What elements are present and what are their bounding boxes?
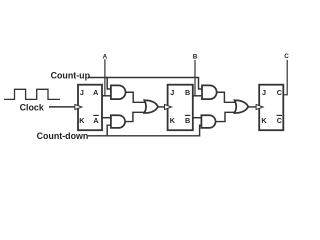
svg-text:Clock: Clock [20,102,44,112]
clock wedge FF1 [75,105,82,110]
wire OR2 to FF3 clock [248,106,256,108]
svg-text:B: B [185,88,190,97]
wire A-bar output [102,117,111,119]
wire AND2 to OR1 [125,112,146,121]
node B [194,61,196,96]
wire count-down rail [89,125,202,136]
or-gate OR1 [144,100,158,113]
svg-text:Count-down: Count-down [37,131,89,141]
clock wedge FF3 [256,105,263,110]
flip-flop FF2 [168,85,193,131]
wire B-bar output [193,117,202,119]
svg-text:C: C [277,88,282,97]
overline C-bar FF3 [277,114,281,116]
flip-flop FF1 [78,85,102,131]
wire OR1 to FF2 clock [158,106,165,108]
svg-text:J: J [80,88,84,97]
svg-text:B: B [193,53,198,60]
svg-text:J: J [170,88,174,97]
svg-text:K: K [261,116,267,125]
svg-text:C: C [277,116,282,125]
svg-text:K: K [79,116,85,125]
node A [104,60,106,96]
wire AND3 to OR2 [217,92,237,102]
svg-text:A: A [93,116,98,125]
clock wedge FF2 [165,105,172,110]
wire count-up to AND1 [107,78,111,90]
svg-text:Count-up: Count-up [51,70,91,80]
wire AND1 to OR1 [126,92,147,102]
or-gate OR2 [235,100,249,113]
svg-text:K: K [170,116,176,125]
flip-flop FF3 [259,85,283,131]
and-gate AND4 [201,115,215,128]
wire clock input [50,106,75,108]
wire AND4 to OR2 [216,112,237,121]
node C wire [283,61,287,95]
and-gate AND1 [111,85,126,99]
wire count-down to AND2 [107,125,111,136]
wire count-up rail [90,78,202,90]
overline B-bar FF2 [185,114,189,116]
svg-text:A: A [103,53,108,60]
wire A output [102,95,111,97]
and-gate AND3 [202,85,217,99]
svg-text:B: B [185,116,190,125]
svg-text:C: C [284,53,289,60]
wire B output [193,95,202,97]
and-gate AND2 [111,115,125,128]
svg-text:J: J [262,88,266,97]
svg-text:A: A [93,88,98,97]
overline A-bar FF1 [94,114,98,116]
clock waveform [5,89,60,99]
